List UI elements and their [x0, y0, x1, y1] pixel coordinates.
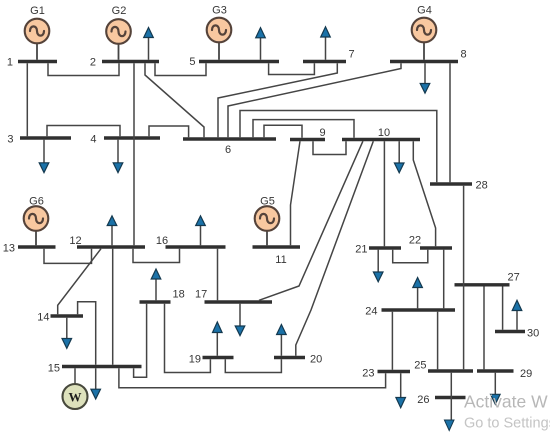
- wire line 10-21: [383, 141, 385, 246]
- load arrow down at bus 10: [394, 141, 404, 173]
- svg-text:26: 26: [417, 394, 429, 406]
- wire line 15-23: [119, 368, 386, 388]
- svg-text:G2: G2: [112, 5, 127, 17]
- svg-text:28: 28: [476, 180, 488, 192]
- bus 8 bar: [390, 60, 458, 63]
- load arrow up at bus 7: [321, 27, 331, 60]
- load arrow up at bus 12: [107, 216, 117, 246]
- bus 23 bar: [378, 370, 411, 373]
- load arrow down at bus 4: [113, 140, 123, 173]
- wire line 23-24: [391, 312, 393, 370]
- wire line 6-10: [253, 120, 354, 138]
- svg-text:8: 8: [461, 49, 467, 61]
- wire line 9-11: [291, 141, 301, 245]
- generator G5: [255, 206, 280, 231]
- load arrow down at bus 15: [91, 368, 101, 399]
- bus 1 bar: [18, 60, 57, 63]
- generator G3: [207, 18, 232, 43]
- wire line 21-22: [393, 250, 428, 263]
- load arrow down at bus 3: [39, 140, 49, 173]
- svg-text:23: 23: [362, 368, 374, 380]
- generator G2: [106, 19, 131, 44]
- wire line 19-20: [225, 359, 281, 372]
- load arrow up at bus 18: [151, 269, 161, 300]
- bus 29 bar: [477, 369, 514, 372]
- generator G2 stem wire: [118, 44, 120, 60]
- load arrow up at bus 19: [213, 322, 223, 356]
- wire line 27-29: [483, 287, 485, 370]
- wire line 2-4 and 4-12: [133, 63, 135, 245]
- wire line 12-13: [44, 249, 92, 264]
- wire line 12-14: [58, 249, 101, 315]
- generator G1 stem wire: [36, 44, 38, 60]
- bus 2 bar: [102, 60, 159, 63]
- wire line 14-15: [78, 302, 96, 365]
- svg-text:27: 27: [508, 272, 520, 284]
- bus 6 bar: [183, 137, 276, 140]
- load arrow up at bus 16: [196, 216, 206, 246]
- bus 10 bar: [342, 138, 420, 141]
- load arrow up at bus 2: [144, 28, 154, 60]
- svg-text:4: 4: [90, 134, 96, 146]
- bus 4 bar: [104, 136, 160, 139]
- machine W: [63, 384, 88, 409]
- svg-text:18: 18: [173, 289, 185, 301]
- wire line 6-8: [228, 63, 401, 137]
- bus 22 bar: [420, 246, 452, 249]
- wire line 27-30: [502, 287, 504, 330]
- wire line 12-16: [133, 249, 180, 263]
- bus 13 bar: [18, 245, 56, 248]
- load arrow up at bus 24: [413, 278, 423, 309]
- svg-text:Go to Settings: Go to Settings: [464, 416, 550, 432]
- bus 15 bar: [62, 365, 142, 368]
- load arrow down at bus 26: [444, 420, 454, 431]
- svg-text:W: W: [69, 390, 82, 405]
- svg-text:16: 16: [156, 235, 168, 247]
- svg-text:11: 11: [275, 254, 286, 266]
- svg-text:29: 29: [520, 368, 532, 380]
- load arrow up at bus 30: [512, 300, 522, 330]
- svg-text:21: 21: [355, 244, 367, 256]
- svg-text:25: 25: [414, 360, 426, 372]
- wire line 6-28: [240, 111, 437, 183]
- wire line 2-5: [155, 63, 206, 75]
- svg-text:G5: G5: [260, 196, 275, 208]
- load arrow up at bus 5: [256, 28, 266, 60]
- generator G6 stem wire: [35, 231, 37, 245]
- generator G5 stem wire: [266, 231, 268, 245]
- svg-text:19: 19: [189, 354, 201, 366]
- generator G4 stem wire: [423, 43, 425, 60]
- wire line 12-15: [112, 249, 114, 365]
- bus 18 bar: [140, 300, 171, 303]
- svg-text:6: 6: [225, 144, 231, 156]
- load arrow down at bus 23: [396, 373, 406, 408]
- svg-text:20: 20: [310, 354, 322, 366]
- svg-text:9: 9: [319, 127, 325, 139]
- wire line 4-6: [149, 126, 189, 137]
- svg-text:G1: G1: [30, 5, 45, 17]
- wire line 10-20: [296, 141, 374, 356]
- load arrow up at bus 20: [277, 325, 287, 356]
- generator G1: [25, 19, 50, 44]
- wire line 28-27 and 27-25: [463, 186, 465, 370]
- bus 27 bar: [455, 283, 510, 286]
- wire line 5-7: [269, 63, 315, 74]
- bus 24 bar: [382, 308, 456, 311]
- svg-text:2: 2: [90, 57, 96, 69]
- wire line 8-28: [449, 63, 451, 182]
- load arrow down at bus 17: [235, 304, 245, 336]
- bus 20 bar: [274, 356, 305, 359]
- bus 30 bar: [495, 330, 525, 333]
- svg-text:22: 22: [409, 235, 421, 247]
- wire line 6-9: [264, 125, 302, 138]
- bus 5 bar: [199, 60, 279, 63]
- bus 26 bar: [435, 396, 466, 399]
- generator G4: [412, 18, 437, 43]
- svg-text:30: 30: [527, 328, 539, 340]
- wire line 10-17: [259, 141, 363, 300]
- wire line 22-24: [443, 250, 445, 309]
- wire line 10-22: [413, 141, 435, 246]
- wire line 18-19: [165, 304, 211, 373]
- wire line 1-3: [26, 63, 28, 136]
- bus 28 bar: [430, 182, 472, 185]
- svg-text:1: 1: [7, 57, 13, 69]
- wire line 24-25: [437, 312, 439, 370]
- svg-text:7: 7: [349, 49, 355, 61]
- wire line 15-18: [134, 304, 147, 378]
- bus 21 bar: [369, 246, 401, 249]
- wire line 2-6: [145, 63, 204, 137]
- svg-text:10: 10: [378, 127, 390, 139]
- wire line 1-2: [48, 63, 119, 75]
- generator G6: [24, 206, 49, 231]
- load arrow down at bus 29: [491, 373, 501, 405]
- bus 7 bar: [303, 60, 346, 63]
- svg-text:12: 12: [69, 235, 81, 247]
- wire line 25-26 with load tail: [450, 373, 452, 420]
- svg-text:13: 13: [3, 243, 15, 255]
- svg-text:G4: G4: [417, 5, 432, 17]
- svg-text:G3: G3: [212, 5, 227, 17]
- svg-text:3: 3: [7, 134, 13, 146]
- load arrow down at bus 8: [420, 63, 430, 93]
- bus 11 bar: [253, 245, 301, 248]
- wire line 9-10: [313, 141, 346, 154]
- svg-text:24: 24: [365, 306, 377, 318]
- wire line 6-7: [218, 63, 337, 137]
- svg-text:G6: G6: [29, 196, 44, 208]
- svg-text:Activate W: Activate W: [464, 392, 548, 412]
- load arrow down at bus 14: [62, 318, 72, 349]
- bus 16 bar: [166, 245, 226, 248]
- machine W stem wire: [74, 368, 76, 384]
- svg-text:15: 15: [48, 363, 60, 375]
- bus 3 bar: [20, 136, 71, 139]
- bus 14 bar: [51, 314, 84, 317]
- load arrow down at bus 21: [373, 250, 383, 282]
- svg-text:5: 5: [189, 56, 195, 68]
- bus 25 bar: [428, 369, 473, 372]
- generator G3 stem wire: [218, 43, 220, 60]
- svg-text:14: 14: [37, 312, 49, 324]
- bus 19 bar: [203, 356, 234, 359]
- wire line 16-17: [217, 249, 219, 301]
- bus 17 bar: [205, 300, 273, 303]
- wire line 3-4: [47, 126, 120, 137]
- svg-text:17: 17: [195, 289, 207, 301]
- bus 9 bar: [290, 138, 325, 141]
- bus 12 bar: [77, 245, 145, 248]
